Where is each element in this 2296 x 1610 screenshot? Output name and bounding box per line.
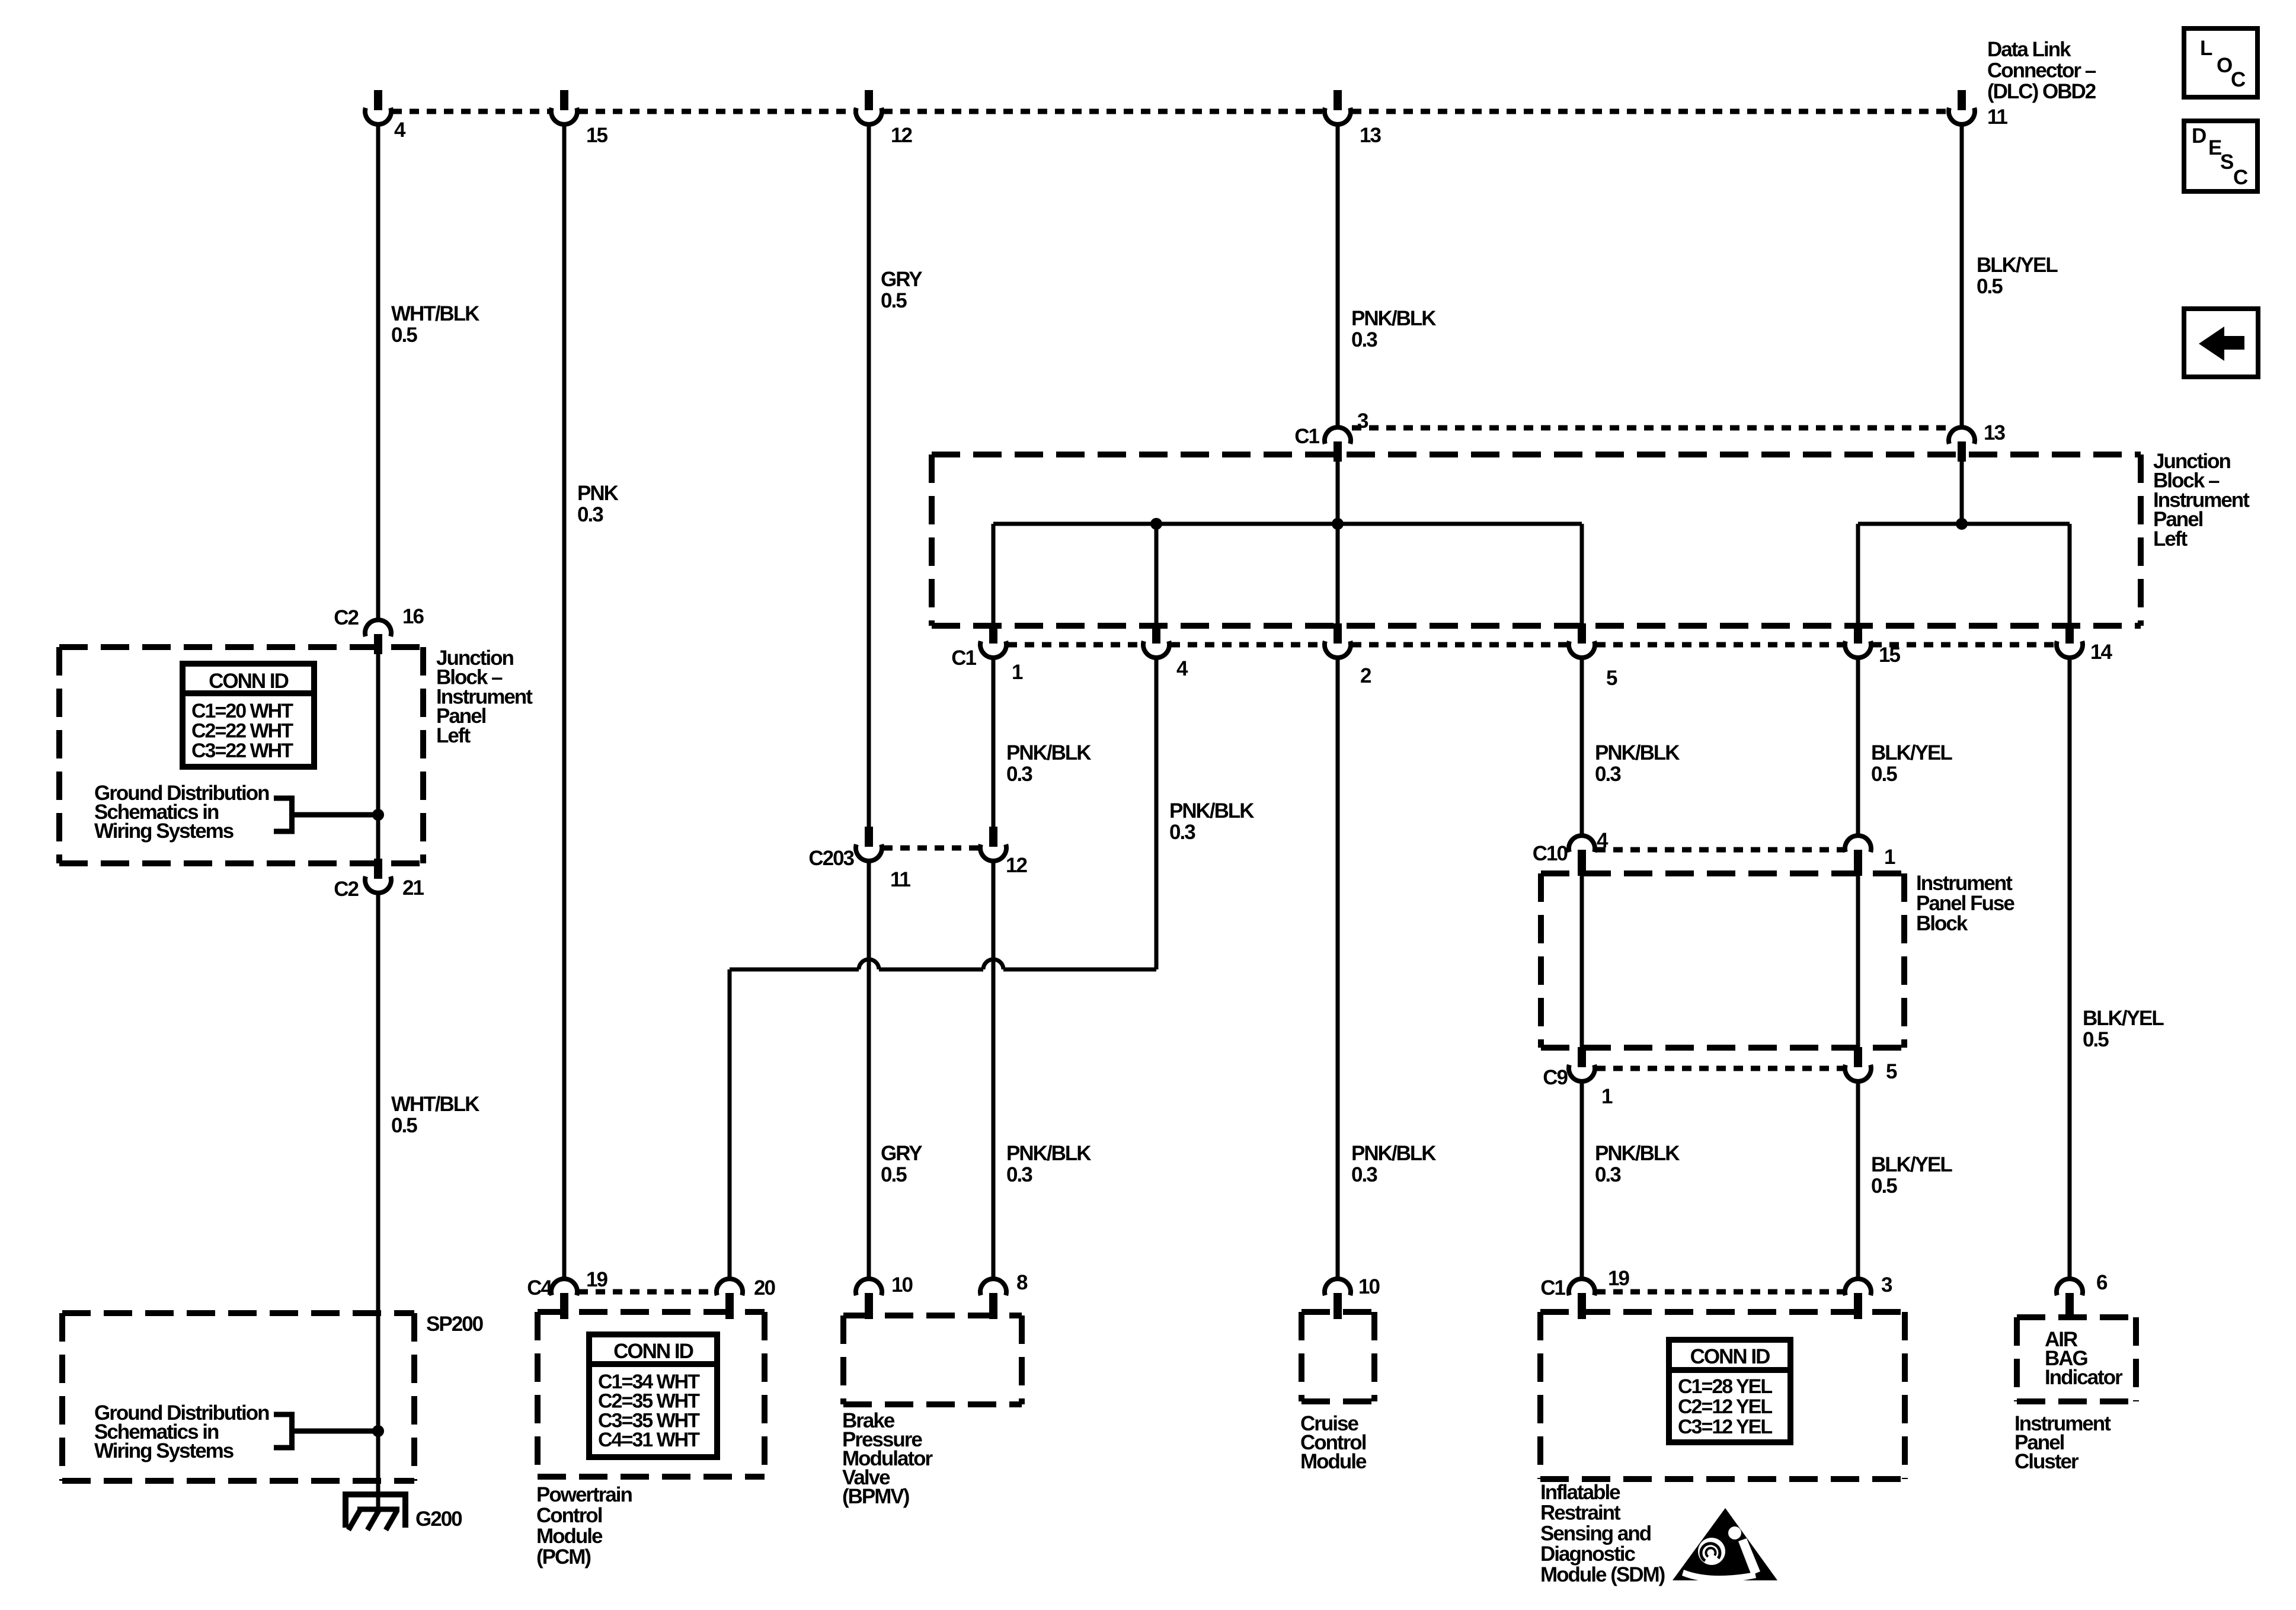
svg-text:CONN ID: CONN ID — [1690, 1345, 1770, 1368]
svg-text:Module (SDM): Module (SDM) — [1540, 1563, 1665, 1586]
svg-text:(DLC) OBD2: (DLC) OBD2 — [1987, 80, 2096, 103]
svg-text:11: 11 — [1987, 105, 2008, 129]
svg-text:21: 21 — [402, 876, 424, 900]
svg-text:Restraint: Restraint — [1540, 1502, 1621, 1525]
svg-text:PNK/BLK: PNK/BLK — [1351, 1142, 1436, 1165]
svg-text:C1: C1 — [1294, 425, 1319, 448]
svg-text:4: 4 — [1176, 657, 1188, 680]
svg-text:C1: C1 — [1540, 1276, 1565, 1299]
svg-text:12: 12 — [891, 124, 912, 147]
svg-text:Inflatable: Inflatable — [1540, 1481, 1620, 1504]
svg-text:0.3: 0.3 — [1169, 821, 1195, 844]
svg-text:0.3: 0.3 — [1595, 763, 1621, 786]
svg-text:PNK/BLK: PNK/BLK — [1595, 1142, 1680, 1165]
svg-text:0.3: 0.3 — [1595, 1163, 1621, 1186]
svg-text:0.3: 0.3 — [1006, 1163, 1032, 1186]
svg-text:0.3: 0.3 — [1351, 328, 1377, 351]
svg-text:BLK/YEL: BLK/YEL — [1871, 1153, 1952, 1176]
svg-text:C3=12 YEL: C3=12 YEL — [1678, 1416, 1772, 1438]
svg-text:CONN ID: CONN ID — [209, 670, 289, 693]
svg-text:5: 5 — [1886, 1060, 1897, 1083]
svg-text:C10: C10 — [1533, 842, 1568, 865]
svg-text:C4: C4 — [527, 1276, 552, 1299]
svg-text:E: E — [2208, 136, 2221, 159]
svg-text:0.5: 0.5 — [1977, 275, 2003, 298]
svg-text:GRY: GRY — [881, 268, 922, 291]
svg-text:PNK: PNK — [577, 482, 619, 505]
svg-text:C1: C1 — [951, 646, 976, 670]
svg-text:PNK/BLK: PNK/BLK — [1169, 799, 1254, 822]
svg-text:Module: Module — [1300, 1450, 1367, 1473]
svg-text:12: 12 — [1006, 854, 1027, 877]
svg-text:Connector –: Connector – — [1987, 59, 2096, 82]
svg-text:8: 8 — [1016, 1271, 1028, 1294]
svg-text:0.5: 0.5 — [391, 1114, 417, 1137]
svg-text:Module: Module — [536, 1525, 603, 1548]
svg-text:0.5: 0.5 — [1871, 763, 1897, 786]
svg-text:C2: C2 — [334, 878, 359, 901]
svg-text:3: 3 — [1357, 409, 1368, 433]
svg-text:Diagnostic: Diagnostic — [1540, 1542, 1635, 1566]
svg-text:1: 1 — [1884, 846, 1895, 869]
svg-text:1: 1 — [1012, 661, 1023, 684]
svg-text:Control: Control — [536, 1504, 602, 1527]
svg-text:SP200: SP200 — [426, 1313, 484, 1336]
svg-text:0.5: 0.5 — [881, 1163, 907, 1186]
svg-text:WHT/BLK: WHT/BLK — [391, 302, 479, 325]
svg-text:1: 1 — [1601, 1085, 1613, 1108]
svg-text:Wiring Systems: Wiring Systems — [94, 820, 234, 843]
svg-text:GRY: GRY — [881, 1142, 922, 1165]
svg-text:19: 19 — [586, 1268, 607, 1291]
svg-text:S: S — [2220, 151, 2233, 174]
svg-text:13: 13 — [1984, 421, 2005, 444]
svg-text:Data Link: Data Link — [1987, 38, 2071, 61]
svg-text:0.3: 0.3 — [577, 503, 603, 526]
svg-text:C1=28 YEL: C1=28 YEL — [1678, 1375, 1772, 1398]
svg-text:PNK/BLK: PNK/BLK — [1351, 307, 1436, 330]
svg-text:Left: Left — [2153, 527, 2188, 550]
svg-text:C9: C9 — [1543, 1066, 1568, 1089]
svg-text:0.5: 0.5 — [881, 289, 907, 312]
svg-text:PNK/BLK: PNK/BLK — [1006, 741, 1091, 764]
svg-text:C2=22 WHT: C2=22 WHT — [191, 720, 293, 742]
svg-text:PNK/BLK: PNK/BLK — [1006, 1142, 1091, 1165]
svg-text:3: 3 — [1881, 1273, 1892, 1297]
svg-text:2: 2 — [1360, 664, 1371, 687]
svg-text:C: C — [2233, 166, 2248, 189]
svg-text:Indicator: Indicator — [2045, 1366, 2123, 1389]
svg-text:C3=22 WHT: C3=22 WHT — [191, 740, 293, 762]
svg-text:16: 16 — [402, 605, 424, 628]
svg-text:0.5: 0.5 — [391, 324, 417, 347]
svg-text:5: 5 — [1606, 667, 1617, 690]
svg-text:BLK/YEL: BLK/YEL — [1977, 254, 2058, 277]
svg-text:Cluster: Cluster — [2014, 1450, 2079, 1473]
svg-text:C2: C2 — [334, 606, 359, 629]
svg-text:4: 4 — [1597, 829, 1609, 852]
svg-text:6: 6 — [2096, 1271, 2108, 1294]
svg-text:C2=12 YEL: C2=12 YEL — [1678, 1395, 1772, 1418]
svg-text:Sensing and: Sensing and — [1540, 1522, 1651, 1545]
svg-text:(BPMV): (BPMV) — [842, 1485, 909, 1508]
svg-text:C4=31 WHT: C4=31 WHT — [598, 1429, 700, 1451]
svg-text:10: 10 — [891, 1273, 913, 1297]
svg-text:L: L — [2200, 37, 2212, 60]
svg-text:15: 15 — [1879, 644, 1900, 667]
svg-text:O: O — [2217, 54, 2232, 77]
svg-text:0.3: 0.3 — [1006, 763, 1032, 786]
svg-text:C: C — [2231, 68, 2246, 91]
svg-text:BLK/YEL: BLK/YEL — [1871, 741, 1952, 764]
svg-text:19: 19 — [1608, 1267, 1629, 1290]
svg-text:14: 14 — [2090, 641, 2112, 664]
svg-text:PNK/BLK: PNK/BLK — [1595, 741, 1680, 764]
svg-text:Left: Left — [436, 724, 471, 747]
svg-text:Powertrain: Powertrain — [536, 1483, 632, 1506]
svg-text:D: D — [2192, 124, 2206, 148]
svg-text:(PCM): (PCM) — [536, 1545, 590, 1569]
svg-text:C1=20 WHT: C1=20 WHT — [191, 700, 293, 722]
svg-text:15: 15 — [586, 124, 607, 147]
svg-text:WHT/BLK: WHT/BLK — [391, 1093, 479, 1116]
svg-text:C203: C203 — [808, 847, 854, 870]
svg-text:0.5: 0.5 — [2083, 1028, 2109, 1051]
svg-text:4: 4 — [394, 119, 406, 142]
svg-text:CONN ID: CONN ID — [613, 1340, 693, 1363]
svg-text:G200: G200 — [415, 1507, 462, 1531]
svg-text:10: 10 — [1358, 1275, 1380, 1298]
svg-text:0.5: 0.5 — [1871, 1174, 1897, 1198]
svg-text:Wiring Systems: Wiring Systems — [94, 1439, 234, 1462]
svg-text:20: 20 — [754, 1276, 775, 1299]
svg-text:13: 13 — [1360, 124, 1381, 147]
svg-text:0.3: 0.3 — [1351, 1163, 1377, 1186]
svg-text:Block: Block — [1916, 912, 1968, 935]
svg-text:BLK/YEL: BLK/YEL — [2083, 1007, 2164, 1030]
svg-text:11: 11 — [890, 868, 911, 891]
